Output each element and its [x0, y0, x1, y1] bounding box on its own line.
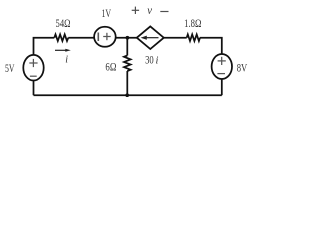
- svg-text:30: 30: [145, 52, 154, 66]
- svg-text:i: i: [65, 55, 68, 66]
- svg-text:8V: 8V: [237, 61, 248, 75]
- svg-text:i: i: [155, 55, 158, 66]
- svg-text:1V: 1V: [101, 6, 111, 20]
- svg-text:1.8Ω: 1.8Ω: [184, 16, 201, 30]
- svg-text:6Ω: 6Ω: [105, 60, 116, 74]
- svg-text:v: v: [147, 3, 152, 17]
- svg-text:54Ω: 54Ω: [56, 16, 71, 30]
- svg-text:5V: 5V: [5, 61, 15, 75]
